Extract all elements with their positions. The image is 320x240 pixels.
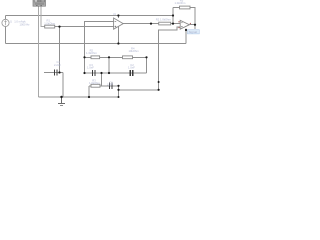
svg-text:R2 1.0kOhm: R2 1.0kOhm bbox=[156, 18, 172, 22]
svg-text:10kOhm: 10kOhm bbox=[129, 49, 140, 53]
svg-text:1.3kOhm: 1.3kOhm bbox=[86, 51, 98, 55]
svg-text:1.0kOhm: 1.0kOhm bbox=[44, 21, 56, 25]
svg-text:1.0kOhm: 1.0kOhm bbox=[89, 81, 101, 85]
svg-text:I1: I1 bbox=[10, 20, 13, 23]
svg-text:1.0nF: 1.0nF bbox=[107, 84, 114, 87]
svg-text:1.0nF: 1.0nF bbox=[87, 66, 94, 70]
svg-text:2.2nF: 2.2nF bbox=[54, 63, 61, 67]
svg-text:1.0kOhm: 1.0kOhm bbox=[175, 1, 187, 5]
svg-text:1000 Hz: 1000 Hz bbox=[20, 23, 31, 27]
svg-text:1.0nF: 1.0nF bbox=[128, 66, 135, 70]
svg-text:Signal: Signal bbox=[189, 30, 198, 34]
